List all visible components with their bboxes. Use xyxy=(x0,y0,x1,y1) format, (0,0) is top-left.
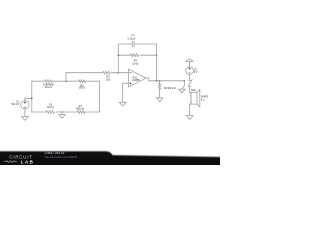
svg-text:8 Ω: 8 Ω xyxy=(201,99,205,101)
svg-text:R4: R4 xyxy=(134,60,138,63)
node (feedback to output) xyxy=(156,80,158,82)
ground (below V1) xyxy=(22,117,29,121)
switch SW1 xyxy=(188,80,192,93)
resistor RL xyxy=(158,81,160,90)
wire (bridge right edge) xyxy=(99,81,101,112)
node (RL junction) xyxy=(159,80,161,82)
node (bridge top tap) xyxy=(65,80,67,82)
node (R4 rail left) xyxy=(118,54,120,56)
svg-text:http://circuitlab.com/c8fkt45: http://circuitlab.com/c8fkt45 xyxy=(44,155,77,159)
node (output end) xyxy=(184,80,186,82)
ground (bridge bottom mid) xyxy=(59,112,66,118)
wire (feedback right edge) xyxy=(156,44,158,81)
resistor R3 xyxy=(77,111,85,114)
ground (below RL) xyxy=(156,98,163,102)
svg-text:500 mV: 500 mV xyxy=(11,104,19,106)
wire (op-amp output jog) xyxy=(146,78,184,81)
power flag (V2 supply arrow) xyxy=(186,59,193,67)
watermark bar xyxy=(0,151,222,168)
wire (bridge bottom rail) xyxy=(32,111,100,113)
svg-text:C1: C1 xyxy=(131,33,135,37)
ground (below speaker) xyxy=(186,116,193,120)
svg-text:OA1: OA1 xyxy=(132,76,137,79)
svg-text:cml83 / 326 #2: cml83 / 326 #2 xyxy=(44,151,64,155)
ground (op-amp plus input) xyxy=(119,102,126,106)
wire (bridge top rail) xyxy=(32,80,100,82)
logo squiggle xyxy=(4,161,17,163)
svg-text:9 V: 9 V xyxy=(194,72,198,74)
svg-text:1 kΩ: 1 kΩ xyxy=(106,79,111,81)
resistor R1 xyxy=(46,111,55,114)
ground (output end) xyxy=(179,89,185,93)
wire (feedback left edge) xyxy=(117,44,119,73)
node (R4 rail right) xyxy=(156,54,158,56)
wire (bridge left edge) xyxy=(31,81,33,112)
wire (C1 top rail) xyxy=(118,43,156,45)
labels xyxy=(11,33,209,111)
wire (R4 rail) xyxy=(118,54,156,56)
wire (plus input to ground) xyxy=(123,83,129,102)
wire (output end ground stub) xyxy=(182,81,185,89)
resistor R5 xyxy=(103,71,111,74)
speaker SPKR1 xyxy=(190,89,200,115)
svg-text:0.15 µF: 0.15 µF xyxy=(128,38,136,40)
node (bottom mid junction) xyxy=(61,111,63,113)
svg-text:SW1: SW1 xyxy=(191,90,197,92)
resistor THERM66 xyxy=(45,80,53,83)
svg-text:LAB: LAB xyxy=(21,159,34,164)
svg-text:66.2 Ω: 66.2 Ω xyxy=(45,87,52,89)
resistor R2 xyxy=(78,80,85,83)
svg-text:390 Ω: 390 Ω xyxy=(79,88,85,90)
svg-text:66.2 Ω: 66.2 Ω xyxy=(47,107,54,109)
op-amp OA1 xyxy=(128,69,146,87)
svg-text:560 mΩ: 560 mΩ xyxy=(76,109,84,111)
svg-text:SPKR1: SPKR1 xyxy=(201,96,209,98)
node (V1 tap junction) xyxy=(31,98,33,100)
wire (RL to ground) xyxy=(159,90,161,98)
svg-text:10 kΩ: 10 kΩ xyxy=(132,64,138,66)
voltage source V1 xyxy=(21,98,32,116)
resistor R4 xyxy=(130,54,138,57)
node (minus input / feedback junction) xyxy=(118,72,120,74)
svg-text:RL 500 mΩ: RL 500 mΩ xyxy=(164,88,176,90)
svg-text:R5: R5 xyxy=(106,76,110,79)
svg-text:LM358: LM358 xyxy=(132,80,140,82)
wire (tap up to R5 rail) xyxy=(66,73,128,82)
capacitor C1 xyxy=(132,41,134,47)
svg-text:R3: R3 xyxy=(79,105,83,108)
svg-text:R1: R1 xyxy=(49,104,53,107)
voltage source V2 xyxy=(186,67,194,80)
svg-text:V1: V1 xyxy=(16,100,20,103)
